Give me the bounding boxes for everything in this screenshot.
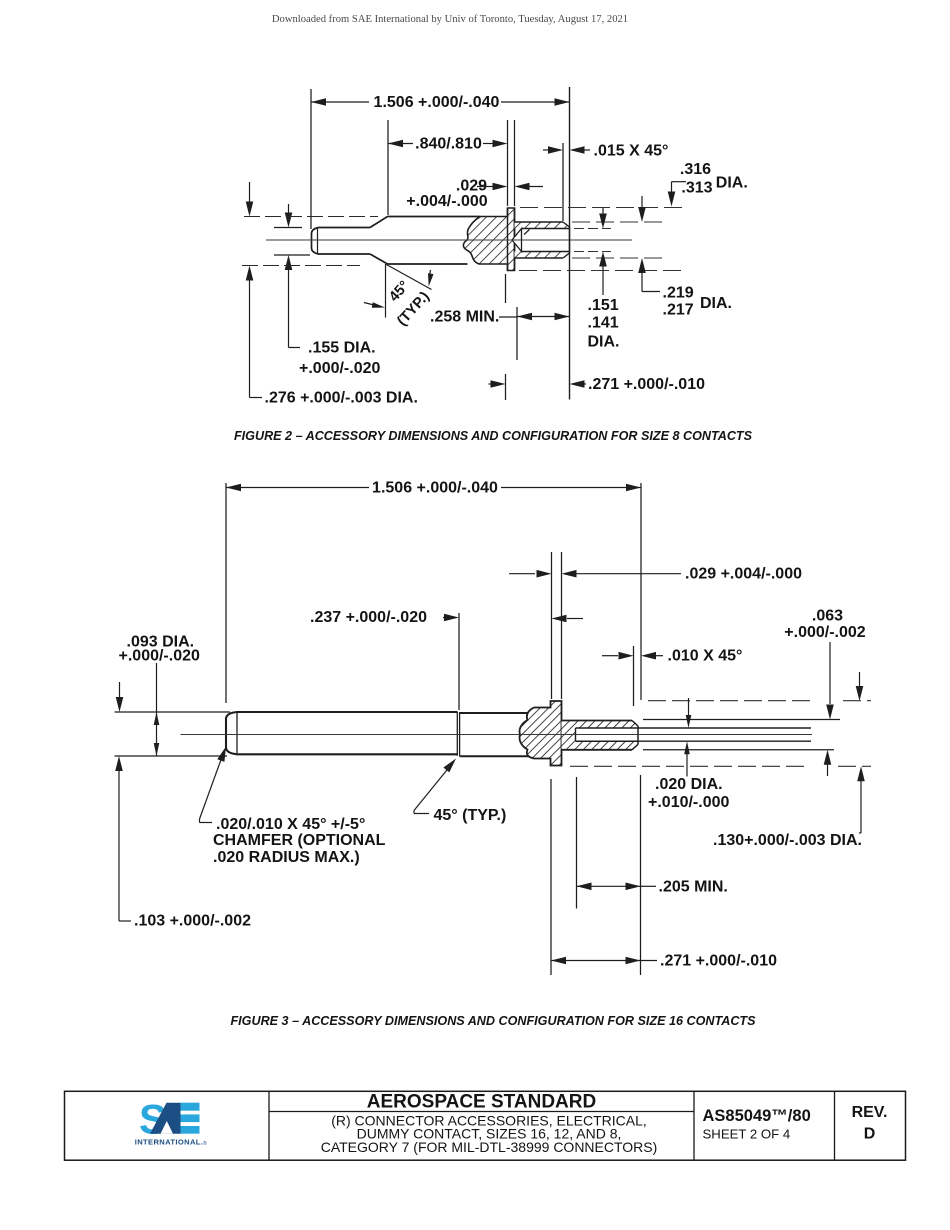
svg-text:CHAMFER (OPTIONAL: CHAMFER (OPTIONAL	[213, 832, 386, 849]
dimension .130 +.000/-.003 DIA. (flange OD fig3)	[713, 672, 865, 849]
dimension .237 +.000/-.020	[310, 609, 583, 710]
revision label	[852, 1104, 888, 1121]
dimension .840/.810	[388, 120, 508, 215]
svg-text:AEROSPACE STANDARD: AEROSPACE STANDARD	[367, 1091, 596, 1112]
flange OD extension lines (fig3)	[570, 701, 871, 767]
svg-text:.258 MIN.: .258 MIN.	[430, 309, 499, 326]
document number AS85049/80	[703, 1107, 811, 1125]
sheet number	[703, 1126, 791, 1141]
dimension .093 DIA. +.000/-.020 (pin fig3)	[115, 634, 231, 757]
dimension .219/.217 DIA. (sleeve OD)	[638, 196, 732, 319]
svg-text:FIGURE 2 – ACCESSORY DIMENSION: FIGURE 2 – ACCESSORY DIMENSIONS AND CONF…	[234, 429, 753, 443]
svg-text:1.506 +.000/-.040: 1.506 +.000/-.040	[372, 480, 498, 497]
dimension .029 +.004/-.000 (fig3 flange width)	[509, 552, 802, 699]
svg-text:.015 X 45°: .015 X 45°	[594, 143, 669, 160]
title block table frame	[65, 1091, 906, 1160]
dimension .029 +.004/-.000 (fig2 flange width)	[406, 178, 543, 211]
45 deg taper shoulder	[370, 217, 388, 265]
svg-text:+.004/-.000: +.004/-.000	[406, 193, 488, 210]
extension lines right of fig2 part	[519, 208, 682, 271]
angle callout 45 deg (TYP.) fig2	[364, 264, 434, 329]
dimension .155 DIA. +.000/-.020 (pin tip)	[274, 204, 381, 377]
svg-text:.063: .063	[812, 608, 843, 625]
dimension 1.506 +.000/-.040 (fig3 overall length)	[226, 480, 641, 704]
dimension .271 +.000/-.010 (fig3)	[551, 775, 777, 975]
svg-text:.130+.000/-.003 DIA.: .130+.000/-.003 DIA.	[713, 832, 862, 849]
svg-text:REV.: REV.	[852, 1104, 888, 1121]
svg-text:.020 DIA.: .020 DIA.	[655, 776, 723, 793]
svg-text:.010 X 45°: .010 X 45°	[668, 648, 743, 665]
svg-text:.029 +.004/-.000: .029 +.004/-.000	[685, 566, 802, 583]
chamfer note leader (fig3)	[200, 747, 386, 867]
dimension .258 MIN. (fig2)	[430, 307, 570, 360]
dimension .151/.141 DIA. (bore)	[588, 207, 620, 351]
dimension .205 MIN.	[577, 777, 728, 909]
shoulder junction line (45 deg typ edge)	[457, 712, 459, 756]
threaded sleeve barrel	[515, 222, 570, 258]
svg-text:+.000/-.002: +.000/-.002	[784, 624, 866, 641]
svg-text:.217: .217	[663, 302, 694, 319]
dimension .010 X 45 deg chamfer (fig3)	[602, 646, 742, 706]
svg-text:.020 RADIUS MAX.): .020 RADIUS MAX.)	[213, 849, 360, 866]
svg-text:45° (TYP.): 45° (TYP.)	[434, 807, 507, 824]
subtitle line 1	[331, 1112, 647, 1128]
svg-text:.103 +.000/-.002: .103 +.000/-.002	[134, 913, 251, 930]
sleeve OD extension lines (fig3)	[643, 720, 840, 750]
svg-text:1.506 +.000/-.040: 1.506 +.000/-.040	[374, 94, 500, 111]
dimension 1.506 +.000/-.040 (fig2 overall length)	[311, 87, 570, 400]
hatched section: crimp body and flange	[463, 208, 514, 271]
size 8 contact pin tip outline	[312, 228, 371, 255]
svg-text:D: D	[864, 1126, 876, 1143]
wire tail .020 dia	[638, 728, 811, 741]
svg-text:.141: .141	[588, 315, 619, 332]
svg-text:.271 +.000/-.010: .271 +.000/-.010	[588, 376, 705, 393]
dimension .015 X 45 deg chamfer	[543, 143, 668, 222]
header download note	[272, 14, 628, 25]
svg-text:+.000/-.020: +.000/-.020	[119, 648, 201, 665]
svg-text:INTERNATIONAL.: INTERNATIONAL.	[135, 1138, 203, 1147]
svg-text:.840/.810: .840/.810	[415, 136, 482, 153]
SAE International logo	[135, 1096, 207, 1148]
hatched section: size 16 crimp body and flange	[520, 701, 562, 766]
dimension .271 +.000/-.010 (fig2)	[489, 274, 706, 400]
svg-text:.020/.010 X 45° +/-5°: .020/.010 X 45° +/-5°	[216, 816, 365, 833]
dimension .103 +.000/-.002	[115, 756, 251, 930]
svg-text:FIGURE 3 – ACCESSORY DIMENSION: FIGURE 3 – ACCESSORY DIMENSIONS AND CONF…	[230, 1014, 756, 1028]
subtitle line 3	[321, 1139, 658, 1155]
title AEROSPACE STANDARD	[367, 1091, 596, 1112]
dimension .020 DIA. +.010/-.000 (wire tail)	[648, 698, 730, 811]
svg-text:DIA.: DIA.	[716, 175, 748, 192]
centerline figure 2	[266, 239, 632, 241]
threaded sleeve barrel fig3	[562, 721, 639, 750]
svg-text:.316: .316	[680, 161, 711, 178]
svg-text:SHEET 2 OF 4: SHEET 2 OF 4	[703, 1126, 791, 1141]
svg-text:DIA.: DIA.	[588, 334, 620, 351]
svg-text:®: ®	[203, 1140, 207, 1147]
bore cone (drill point)	[512, 229, 530, 252]
svg-text:.271 +.000/-.010: .271 +.000/-.010	[660, 953, 777, 970]
svg-text:.276 +.000/-.003 DIA.: .276 +.000/-.003 DIA.	[265, 390, 418, 407]
contact body after shoulder	[460, 713, 532, 756]
figure 3 caption	[230, 1014, 756, 1028]
dimension .316/.313 DIA. (flange OD)	[668, 161, 748, 207]
size 16 contact pin outline	[226, 712, 458, 754]
contact body outline	[388, 217, 481, 265]
dimension .063 +.000/-.002 (sleeve OD fig3)	[784, 608, 866, 777]
flange extension lines (fig2)	[508, 120, 515, 206]
svg-text:.219: .219	[663, 285, 694, 302]
centerline fig3 over part	[181, 734, 813, 736]
dimension .276 +.000/-.003 DIA. (body)	[242, 182, 418, 407]
svg-text:Downloaded from SAE Internatio: Downloaded from SAE International by Uni…	[272, 14, 628, 25]
svg-text:.155 DIA.: .155 DIA.	[308, 340, 376, 357]
svg-text:.237 +.000/-.020: .237 +.000/-.020	[310, 609, 427, 626]
revision letter D	[864, 1126, 876, 1143]
svg-text:AS85049™/80: AS85049™/80	[703, 1107, 811, 1125]
svg-text:.151: .151	[588, 297, 619, 314]
svg-text:+.010/-.000: +.010/-.000	[648, 794, 730, 811]
centerline figure 3	[181, 734, 813, 736]
flange .029 disc edges	[508, 208, 515, 271]
svg-text:CATEGORY 7 (FOR MIL-DTL-38999: CATEGORY 7 (FOR MIL-DTL-38999 CONNECTORS…	[321, 1139, 658, 1155]
svg-text:+.000/-.020: +.000/-.020	[299, 360, 381, 377]
figure 2 caption	[234, 429, 753, 443]
svg-text:DIA.: DIA.	[700, 295, 732, 312]
centerline fig2 over part	[266, 239, 632, 241]
subtitle line 2	[357, 1125, 622, 1141]
svg-text:.205 MIN.: .205 MIN.	[659, 878, 728, 895]
angle callout 45 deg (TYP.) fig3	[414, 759, 506, 825]
svg-text:.313: .313	[681, 180, 712, 197]
